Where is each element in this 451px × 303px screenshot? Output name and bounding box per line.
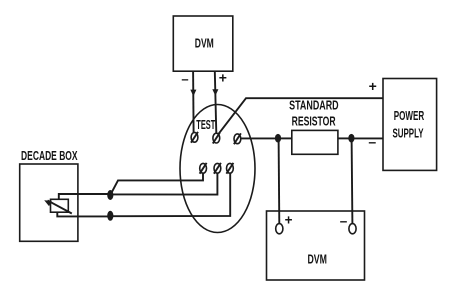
top DVM label [195, 37, 214, 51]
terminal 4 (bottom-left) [200, 163, 207, 174]
bottom DVM minus terminal [349, 224, 356, 234]
top DVM box U1 [173, 16, 233, 71]
POWER label [394, 109, 425, 123]
wire: terminal 2 to power supply plus [219, 98, 383, 134]
SUPPLY label [393, 127, 424, 141]
RESISTOR label [292, 115, 336, 129]
svg-text:SUPPLY: SUPPLY [393, 127, 424, 141]
junction node D [107, 211, 113, 221]
svg-text:+: + [219, 69, 227, 85]
wire: rheostat top to node C [59, 194, 111, 199]
TEST label [196, 118, 215, 133]
terminal 1 (top-left) [191, 132, 198, 143]
wire: node D to terminal 6 [110, 173, 230, 216]
terminal 2 (top-middle) [213, 133, 220, 144]
DECADE BOX label [21, 149, 78, 163]
svg-text:–: – [340, 213, 348, 228]
minus label at top DVM output [181, 72, 188, 87]
STANDARD label [289, 99, 339, 113]
minus label at bottom DVM [340, 213, 348, 228]
arrowhead on plus lead [212, 89, 218, 96]
arrowhead on minus lead [190, 90, 196, 97]
wire: top DVM plus lead [215, 71, 217, 133]
wire: terminal 3 to node A [241, 137, 278, 139]
svg-text:DVM: DVM [195, 37, 214, 51]
junction node B [348, 134, 354, 143]
bottom DVM box U2 [267, 211, 365, 280]
wire: rheostat bottom to node D [57, 212, 110, 216]
svg-text:TEST: TEST [196, 118, 215, 133]
wire: node A down to bottom DVM plus terminal [278, 138, 281, 223]
terminal 3 (top-right) [234, 133, 241, 144]
svg-text:–: – [181, 72, 188, 87]
wire: node B to power supply minus [351, 137, 383, 139]
decade box [20, 164, 78, 241]
svg-text:STANDARD: STANDARD [289, 99, 339, 113]
wire: top DVM minus lead [192, 71, 195, 132]
svg-text:DVM: DVM [307, 253, 326, 267]
svg-text:DECADE BOX: DECADE BOX [21, 149, 78, 163]
plus label at top DVM output [219, 69, 227, 85]
bottom DVM label [307, 253, 326, 267]
terminal 6 (bottom-right) [226, 163, 233, 174]
junction node A [275, 134, 281, 143]
wire: resistor to node B [338, 137, 352, 139]
svg-text:+: + [369, 78, 377, 94]
svg-text:–: – [368, 134, 376, 150]
power supply box [383, 79, 437, 171]
wire: node C to terminal 5 [110, 173, 217, 195]
standard resistor R1 box [292, 130, 338, 154]
wire: node C sense lead to terminal 4 [110, 173, 203, 195]
junction node C [107, 190, 113, 200]
rheostat R2 (decade resistor) [44, 199, 72, 213]
minus label at power supply [368, 134, 376, 150]
svg-text:+: + [285, 212, 293, 227]
bottom DVM plus terminal [276, 224, 283, 234]
plus label at power supply [369, 78, 377, 94]
terminal 5 (bottom-middle) [214, 163, 221, 174]
plus label at bottom DVM [285, 212, 293, 227]
wire: node A to standard resistor [278, 137, 292, 139]
svg-text:RESISTOR: RESISTOR [292, 115, 336, 129]
wire: node B down to bottom DVM minus terminal [351, 138, 354, 223]
test fixture ellipse [180, 105, 255, 233]
svg-text:POWER: POWER [394, 109, 425, 123]
